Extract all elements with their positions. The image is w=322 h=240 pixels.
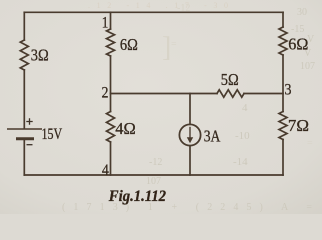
svg-text:3Ω: 3Ω: [31, 47, 49, 65]
svg-text:=: =: [171, 39, 177, 50]
svg-text:-10: -10: [235, 130, 250, 142]
svg-text:107: 107: [300, 61, 315, 72]
svg-text:6Ω: 6Ω: [120, 36, 138, 54]
svg-text:3A: 3A: [204, 127, 221, 145]
svg-text:Fig.1.112: Fig.1.112: [108, 189, 167, 205]
svg-text:-14: -14: [233, 156, 248, 168]
svg-text:-12: -12: [149, 157, 162, 168]
svg-text:1: 1: [102, 14, 109, 31]
svg-text:4: 4: [242, 102, 248, 114]
svg-text:4: 4: [102, 162, 110, 179]
svg-text:107: 107: [146, 176, 161, 187]
svg-text:=: =: [307, 138, 313, 149]
svg-text:15V: 15V: [42, 125, 63, 143]
svg-text:5Ω: 5Ω: [221, 71, 239, 89]
svg-text:6Ω: 6Ω: [288, 34, 308, 53]
svg-text:3: 3: [285, 82, 292, 99]
svg-text:30: 30: [297, 7, 307, 18]
svg-text:4Ω: 4Ω: [115, 119, 135, 138]
svg-text:]: ]: [162, 32, 171, 63]
svg-text:7Ω: 7Ω: [288, 116, 309, 135]
svg-text:2: 2: [102, 85, 109, 102]
